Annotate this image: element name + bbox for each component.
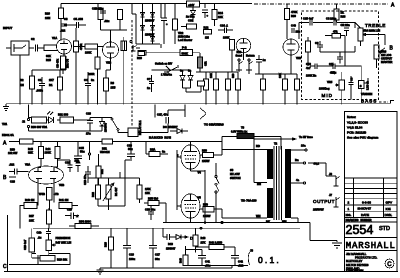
svg-text:OUTPUT: OUTPUT: [313, 199, 335, 204]
dashed box tail: [379, 101, 394, 104]
resistor R60: [173, 19, 178, 44]
svg-text:TH1: TH1: [2, 122, 8, 126]
capacitor C28 .022: [9, 163, 29, 184]
svg-text:TANDEM: TANDEM: [361, 92, 373, 96]
svg-text:C10: C10: [306, 62, 311, 66]
resistor R48: [179, 246, 196, 266]
svg-text:2u 50u: 2u 50u: [186, 15, 195, 19]
svg-text:27K: 27K: [201, 241, 206, 245]
svg-text:R43: R43: [201, 236, 206, 240]
svg-text:16a: 16a: [301, 144, 306, 148]
resistor R51 series: [100, 139, 113, 154]
resistor R43 27K: [193, 228, 206, 252]
svg-text:R16: R16: [237, 50, 242, 54]
svg-text:A: A: [3, 141, 7, 147]
revision row 2: [348, 201, 393, 205]
svg-text:R2: R2: [20, 78, 24, 82]
resistor R12 1M: [204, 26, 212, 40]
capacitor C26 4n7 vertical: [23, 228, 40, 258]
svg-text:Switch as MV: Switch as MV: [155, 62, 172, 66]
jack J2 high input: [131, 45, 145, 56]
resistor R1 2K7: [49, 70, 63, 105]
wire tone internals: [308, 46, 355, 66]
svg-text:C: C: [387, 262, 392, 268]
svg-text:BK: BK: [266, 220, 270, 224]
svg-text:1n: 1n: [147, 86, 150, 90]
wire cathode bus: [163, 221, 337, 242]
resistor R30 330R: [31, 117, 48, 129]
svg-text:0n: 0n: [180, 69, 183, 73]
resistor R26 10M: [45, 8, 64, 41]
svg-text:100u: 100u: [129, 257, 135, 261]
resistor R4 cathode V1A: [56, 56, 70, 74]
resistor R19 10k: [38, 255, 68, 265]
company address: [346, 252, 378, 272]
svg-text:See also PSU diagram: See also PSU diagram: [347, 136, 379, 140]
diode D8: [170, 129, 188, 134]
transformer T2 primary bar bottom: [267, 188, 273, 218]
svg-text:Notes:: Notes:: [347, 115, 356, 119]
capacitor C42 .022: [231, 256, 244, 268]
svg-text:+: +: [166, 23, 168, 26]
svg-text:6.3V 50Hz 2x: 6.3V 50Hz 2x: [231, 130, 248, 134]
boxed resistor R61: [181, 24, 197, 29]
svg-text:UBC1M: UBC1M: [100, 150, 110, 154]
wire coupling top right: [299, 23, 355, 40]
svg-text:R5A: R5A: [150, 148, 155, 152]
svg-text:C31: C31: [65, 161, 70, 165]
wire relay loop top: [29, 105, 156, 121]
svg-text:R54 180C: R54 180C: [79, 220, 91, 224]
diode D4 1N4007: [151, 24, 155, 33]
svg-text:C41: C41: [205, 260, 210, 264]
switch S4: [102, 118, 119, 131]
svg-text:.022: .022: [9, 163, 15, 167]
capacitor C40 22u: [291, 24, 300, 34]
resistor R40 1M: [24, 198, 37, 209]
triode V2B: [283, 39, 301, 60]
dashed tone stack box: [302, 11, 379, 100]
svg-text:R12: R12: [204, 26, 209, 30]
svg-text:DATE: DATE: [361, 213, 369, 217]
svg-text:T2: T2: [274, 142, 278, 146]
resistor R44 100K: [45, 142, 61, 168]
svg-text:R14: R14: [218, 11, 223, 15]
svg-text:V4,5: EL34: V4,5: EL34: [347, 126, 363, 130]
capacitor C2B .02u: [92, 7, 110, 24]
wire bridge rails: [143, 4, 162, 49]
capacitor C24 .1: [218, 24, 233, 34]
svg-text:+: +: [207, 15, 209, 18]
svg-text:+Wp: +Wp: [330, 71, 336, 75]
resistor R22b: [91, 185, 101, 206]
resistor R54 180: [69, 220, 99, 229]
triode V1B: [103, 42, 119, 65]
transformer T3: [222, 126, 281, 150]
transformer T2 primary bar top: [267, 149, 273, 179]
svg-text:10K: 10K: [29, 219, 34, 223]
potentiometer VR4 treble: [355, 23, 385, 47]
dashed control line: [131, 20, 133, 127]
resistor R45 82K: [28, 142, 44, 168]
wire V1B plate net: [101, 30, 128, 42]
node A left: [3, 141, 222, 147]
capacitor C17 80u: [149, 228, 160, 268]
svg-text:.02u: .02u: [104, 19, 110, 23]
capacitor C2: [31, 37, 44, 52]
svg-text:DRAWING NUMBER: DRAWING NUMBER: [346, 218, 372, 222]
svg-text:P-B: P-B: [182, 46, 187, 50]
capacitor C9: [349, 76, 354, 100]
resistor R42 2M2: [196, 241, 236, 256]
sheet left border segment: [7, 215, 9, 272]
wire rail feeds: [61, 4, 337, 20]
svg-text:100K lin: 100K lin: [306, 74, 317, 78]
svg-text:C5 .003: C5 .003: [74, 17, 84, 21]
drawing number 2554 STD: [346, 223, 391, 237]
svg-text:R51: R51: [102, 147, 107, 151]
svg-text:J6: J6: [329, 172, 332, 176]
svg-text:C2: C2: [31, 37, 35, 41]
svg-text:C29: C29: [67, 208, 72, 212]
svg-text:2K7: 2K7: [49, 78, 54, 82]
svg-text:Send: Send: [236, 54, 243, 58]
revision row 1: [348, 207, 391, 211]
wire T2 secondary taps: [266, 144, 320, 224]
svg-text:470K: 470K: [291, 10, 297, 14]
svg-text:R23: R23: [104, 242, 108, 247]
svg-text:R48: R48: [179, 258, 183, 263]
svg-text:MARSHALL: MARSHALL: [346, 241, 396, 251]
svg-text:R38: R38: [341, 15, 346, 19]
svg-text:D10: D10: [168, 242, 173, 246]
resistor R55 5k6: [144, 197, 166, 206]
svg-text:A: A: [391, 3, 395, 9]
capacitor C5 .003: [64, 17, 86, 28]
svg-text:C42: C42: [238, 260, 243, 264]
svg-text:To HT fuse: To HT fuse: [299, 135, 313, 139]
label J3: [248, 249, 253, 266]
capacitor C27 47u: [157, 113, 169, 124]
svg-text:R30 330 VD1: R30 330 VD1: [31, 125, 48, 129]
svg-text:+24V: +24V: [188, 3, 195, 7]
resistor R8 100K: [74, 44, 104, 55]
svg-text:R47 25K LIN: R47 25K LIN: [56, 241, 72, 245]
diode D11: [180, 70, 185, 88]
ground bus bottom: [100, 266, 232, 269]
potentiometer VR6 bass tandem: [341, 36, 368, 100]
jack J5 return: [246, 59, 253, 70]
trimmer VR7: [103, 178, 118, 206]
resistor R2 1M lower left: [20, 70, 35, 105]
capacitor C15 1u: [256, 55, 266, 68]
node B left: [3, 175, 16, 181]
svg-text:R40 1M: R40 1M: [25, 198, 35, 202]
wire relay loop bottom: [29, 105, 186, 133]
svg-text:0n: 0n: [162, 150, 165, 154]
diode D2 1N4007: [151, 12, 155, 24]
svg-text:J7: J7: [329, 193, 332, 197]
jack J6: [308, 163, 340, 186]
svg-text:1K5: 1K5: [111, 86, 116, 90]
svg-text:WH: WH: [256, 214, 261, 218]
svg-text:C1: C1: [38, 78, 42, 82]
svg-text:CR 22n: CR 22n: [341, 23, 351, 27]
resistor bank R24: [261, 74, 266, 105]
svg-text:Led Master: Led Master: [178, 38, 192, 42]
label TO HEATERS: [200, 108, 224, 127]
svg-text:ICE: ICE: [386, 207, 391, 211]
svg-text:WH: WH: [282, 220, 287, 224]
svg-text:C25 4n7: C25 4n7: [303, 17, 314, 21]
svg-text:R41 1M: R41 1M: [59, 198, 69, 202]
svg-text:1K5W: 1K5W: [202, 159, 210, 163]
resistor R10 220R: [88, 49, 100, 78]
svg-text:C9: C9: [350, 77, 354, 81]
svg-text:INPUT: INPUT: [3, 26, 12, 30]
resistor R3 1K5: [104, 70, 116, 105]
jack J7: [329, 193, 340, 207]
triode V3 phase inverter: [25, 163, 64, 191]
wire input to C2: [29, 47, 34, 49]
resistor R15K: [137, 178, 151, 203]
svg-text:6-6-88: 6-6-88: [362, 201, 371, 205]
svg-text:R22: R22: [91, 192, 95, 197]
capacitor C2b .1u: [37, 228, 52, 239]
resistor bank R29: [295, 74, 300, 105]
diode D3 1N4007: [141, 24, 145, 38]
svg-text:J3: J3: [250, 249, 253, 253]
wire mid rails: [196, 53, 297, 74]
capacitor C14 1n: [147, 75, 154, 92]
svg-text:2UBC11u: 2UBC11u: [178, 35, 190, 39]
svg-text:C36: C36: [188, 19, 193, 23]
svg-text:V5: V5: [198, 196, 202, 200]
svg-text:RD: RD: [256, 144, 260, 148]
svg-text:MARKED RUN: MARKED RUN: [149, 136, 171, 140]
notes text: [347, 115, 379, 140]
svg-text:R3: R3: [111, 81, 115, 85]
svg-text:50u: 50u: [80, 150, 85, 154]
capacitor C37: [202, 10, 209, 18]
resistor R57 10K: [29, 210, 52, 228]
svg-text:.022: .022: [60, 29, 66, 33]
svg-text:4n7: 4n7: [306, 66, 311, 70]
svg-text:500K: 500K: [182, 52, 188, 56]
capacitor C10 4n7: [306, 62, 322, 70]
capacitor C30 22n: [65, 160, 73, 172]
svg-text:D: D: [190, 236, 193, 241]
svg-text:22u: 22u: [296, 30, 301, 34]
svg-text:CD 47k: CD 47k: [56, 58, 60, 68]
svg-text:RELAY RL1: RELAY RL1: [138, 120, 142, 135]
svg-text:2: 2: [348, 201, 350, 205]
svg-text:V3A: V3A: [25, 163, 30, 167]
wire MV switch net: [152, 66, 191, 92]
svg-text:C2B 4/0u: C2B 4/0u: [92, 7, 104, 11]
svg-text:10K: 10K: [218, 15, 223, 19]
svg-text:27u: 27u: [86, 132, 91, 136]
svg-text:82K: 82K: [28, 151, 33, 155]
capacitor C1 .005: [36, 77, 45, 105]
svg-text:R56: R56: [202, 149, 207, 153]
label Send Return: [236, 54, 256, 58]
svg-text:V2B: V2B: [296, 56, 301, 60]
resistor R37 1K: [334, 9, 346, 23]
svg-text:1N4007: 1N4007: [145, 19, 155, 23]
wire bias bottom: [183, 265, 248, 267]
capacitor C36 electrolytic: [161, 18, 168, 44]
switch S3 hi/low: [215, 168, 241, 197]
node via: [130, 40, 132, 42]
resistor R23: [104, 228, 114, 268]
diode D9 1N4007: [90, 118, 108, 133]
svg-text:LDD rb: LDD rb: [366, 81, 370, 90]
svg-text:C13 47n: C13 47n: [83, 174, 87, 185]
triode V1A: [52, 36, 72, 56]
resistor R56 1K 5W: [200, 149, 223, 164]
svg-text:R31 330: R31 330: [58, 113, 69, 117]
svg-text:S3: S3: [230, 168, 234, 172]
pentode V5: [181, 194, 201, 218]
potentiometer VR3 output master: [374, 45, 392, 68]
svg-text:C40: C40: [291, 24, 296, 28]
diode D1 1N4007: [141, 12, 145, 24]
svg-text:R59: R59: [10, 148, 15, 152]
boxed pot 500K: [146, 46, 200, 56]
svg-text:OUTPUT: OUTPUT: [381, 57, 392, 61]
svg-text:Bn: Bn: [295, 158, 299, 162]
resistor R31 330R: [58, 113, 74, 124]
wire lower bus: [33, 227, 300, 229]
svg-text:HI LOW: HI LOW: [230, 172, 240, 176]
wire phase inverter nets: [20, 160, 78, 210]
triode V2A: [236, 38, 250, 53]
svg-text:100K: 100K: [223, 36, 229, 40]
svg-text:S0,2: S0,2: [314, 162, 320, 166]
revision header row: [346, 213, 393, 217]
svg-text:DRN.: DRN.: [385, 213, 393, 217]
svg-text:820: 820: [231, 73, 235, 78]
capacitor C18: [186, 81, 205, 92]
resistor R41 1M: [59, 198, 72, 209]
svg-text:PCB: JM112B: PCB: JM112B: [347, 131, 366, 135]
resistor R59 10k 3W series: [8, 139, 33, 155]
svg-text:10k 3W: 10k 3W: [8, 151, 18, 155]
svg-text:80u: 80u: [155, 257, 160, 261]
svg-text:R25: R25: [46, 58, 51, 62]
wire chain line to node A: [254, 3, 388, 5]
capacitor C25 4n7: [303, 17, 314, 26]
svg-text:ISS.: ISS.: [346, 213, 352, 217]
svg-text:8n: 8n: [188, 69, 191, 73]
svg-text:DC INVERT: DC INVERT: [163, 125, 178, 129]
resistor R9 470R: [74, 28, 84, 58]
svg-text:C8 220p: C8 220p: [326, 17, 337, 21]
svg-text:C27, 47u: C27, 47u: [157, 113, 168, 117]
svg-text:MASTER: MASTER: [381, 60, 392, 64]
label VR2 Led Master: [178, 31, 192, 42]
capacitor C30 22n: [75, 158, 81, 172]
svg-text:VR5: VR5: [327, 80, 333, 84]
svg-text:V3B: V3B: [59, 183, 64, 187]
svg-text:C28: C28: [10, 180, 15, 184]
svg-text:C17: C17: [155, 253, 160, 257]
wire preamp cathode links: [14, 55, 111, 105]
boxed label +24V: [187, 1, 200, 10]
svg-text:C16: C16: [129, 253, 134, 257]
svg-text:VR3: VR3: [381, 50, 387, 54]
label C36 value: [186, 15, 195, 23]
svg-text:R21: R21: [100, 169, 104, 174]
svg-text:VR4 220k LIN: VR4 220k LIN: [363, 29, 380, 33]
svg-text:1N4007: 1N4007: [166, 247, 176, 251]
resistor R16 100K: [223, 36, 242, 57]
resistor R11: [98, 10, 103, 31]
svg-text:R20: R20: [137, 56, 142, 60]
resistor R33: [306, 37, 311, 58]
transformer T2 secondary bar: [285, 149, 291, 218]
svg-text:F.BO1 3A: F.BO1 3A: [2, 133, 14, 137]
svg-text:220R: 220R: [88, 72, 94, 76]
svg-text:V1A: V1A: [52, 36, 57, 40]
relay RL1: [128, 120, 142, 137]
svg-text:1M LOG: 1M LOG: [381, 53, 391, 57]
svg-text:8n: 8n: [91, 78, 94, 82]
resistor R14 10K: [212, 10, 223, 27]
ground symbol left: [3, 104, 9, 111]
resistor bank R20: [226, 72, 231, 105]
svg-text:VR2: VR2: [178, 31, 184, 35]
capacitor C22 22n: [341, 23, 351, 36]
capacitor C35 50u: [74, 142, 85, 163]
svg-text:C6: C6: [315, 41, 319, 45]
svg-text:B: B: [3, 175, 7, 181]
resistor R21 82k: [96, 154, 104, 190]
resistor bank R18: [204, 72, 209, 105]
svg-text:100K: 100K: [85, 51, 91, 55]
capacitor C3 .022: [60, 17, 68, 33]
capacitor C6: [315, 41, 323, 52]
resistor R32 47k: [325, 30, 345, 39]
resistor bank R19: [209, 72, 219, 105]
resistor R15 boxed: [121, 37, 127, 105]
svg-text:C?: C?: [147, 77, 151, 81]
diode D5: [151, 33, 155, 44]
svg-text:100K: 100K: [45, 151, 51, 155]
wire B+ top rail: [61, 3, 252, 5]
svg-text:1M: 1M: [205, 36, 209, 40]
svg-text:C26 4n7: C26 4n7: [23, 239, 27, 250]
sheet bottom border: [4, 271, 398, 273]
svg-text:1 Wh/Gn: 1 Wh/Gn: [161, 73, 172, 77]
svg-text:C3: C3: [64, 17, 68, 21]
diode D10 1N4007: [163, 228, 193, 250]
svg-text:TH- 70A-139: TH- 70A-139: [241, 199, 257, 203]
svg-text:W4B: W4B: [39, 192, 45, 196]
ground symbol bottom left: [97, 268, 104, 274]
capacitor C33 50u: [127, 142, 135, 162]
svg-text:1/5K: 1/5K: [145, 187, 151, 191]
svg-text:100Klog: 100Klog: [319, 87, 330, 91]
potentiometer VR5 mid: [327, 71, 345, 105]
svg-text:.1: .1: [76, 214, 79, 218]
svg-text:1M: 1M: [20, 83, 24, 87]
svg-text:MID: MID: [322, 93, 333, 98]
capacitor C29 .1: [65, 208, 79, 220]
ground bus main: [6, 103, 390, 105]
svg-text:R42 2.2M0: R42 2.2M0: [209, 241, 223, 245]
